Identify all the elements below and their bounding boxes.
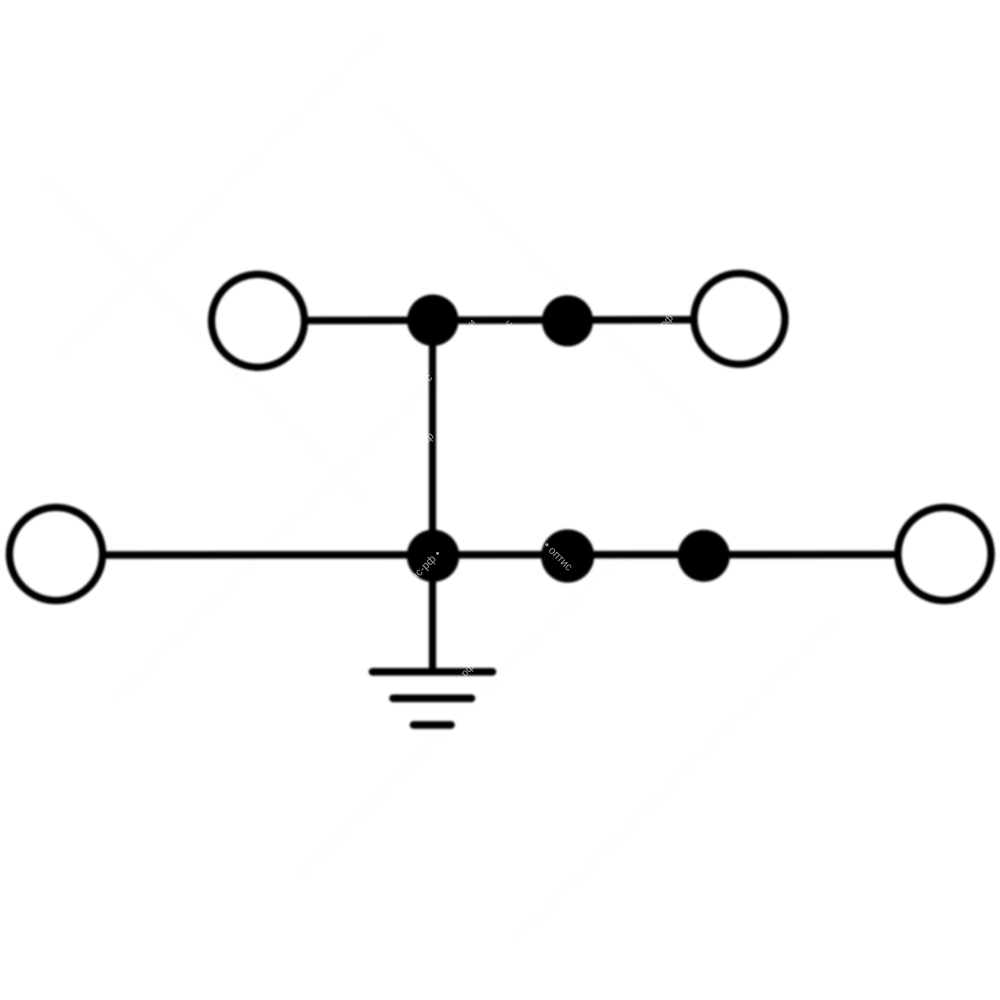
terminal circle bottom-right bbox=[898, 507, 991, 600]
ground symbol bar 2 bbox=[393, 694, 472, 702]
wire vertical bridge bbox=[429, 320, 436, 670]
junction dot top A bbox=[407, 295, 458, 346]
watermark faint dark lattice on white bbox=[38, 34, 842, 942]
wire top horizontal net bbox=[306, 316, 692, 324]
ground symbol bar 3 bbox=[414, 721, 452, 729]
wire bottom horizontal net bbox=[104, 551, 896, 559]
terminal circle top-left bbox=[212, 274, 305, 367]
junction dot bottom C bbox=[678, 530, 730, 582]
terminal circle top-right bbox=[694, 273, 785, 364]
junction dot bottom B bbox=[541, 529, 594, 582]
junction dot bottom A (wire cross) bbox=[407, 530, 459, 582]
terminal circle bottom-left bbox=[9, 507, 102, 600]
junction dot top B bbox=[542, 295, 593, 346]
watermark light text visible on dark shapes bbox=[409, 312, 676, 679]
ground symbol bar 1 bbox=[373, 668, 493, 676]
